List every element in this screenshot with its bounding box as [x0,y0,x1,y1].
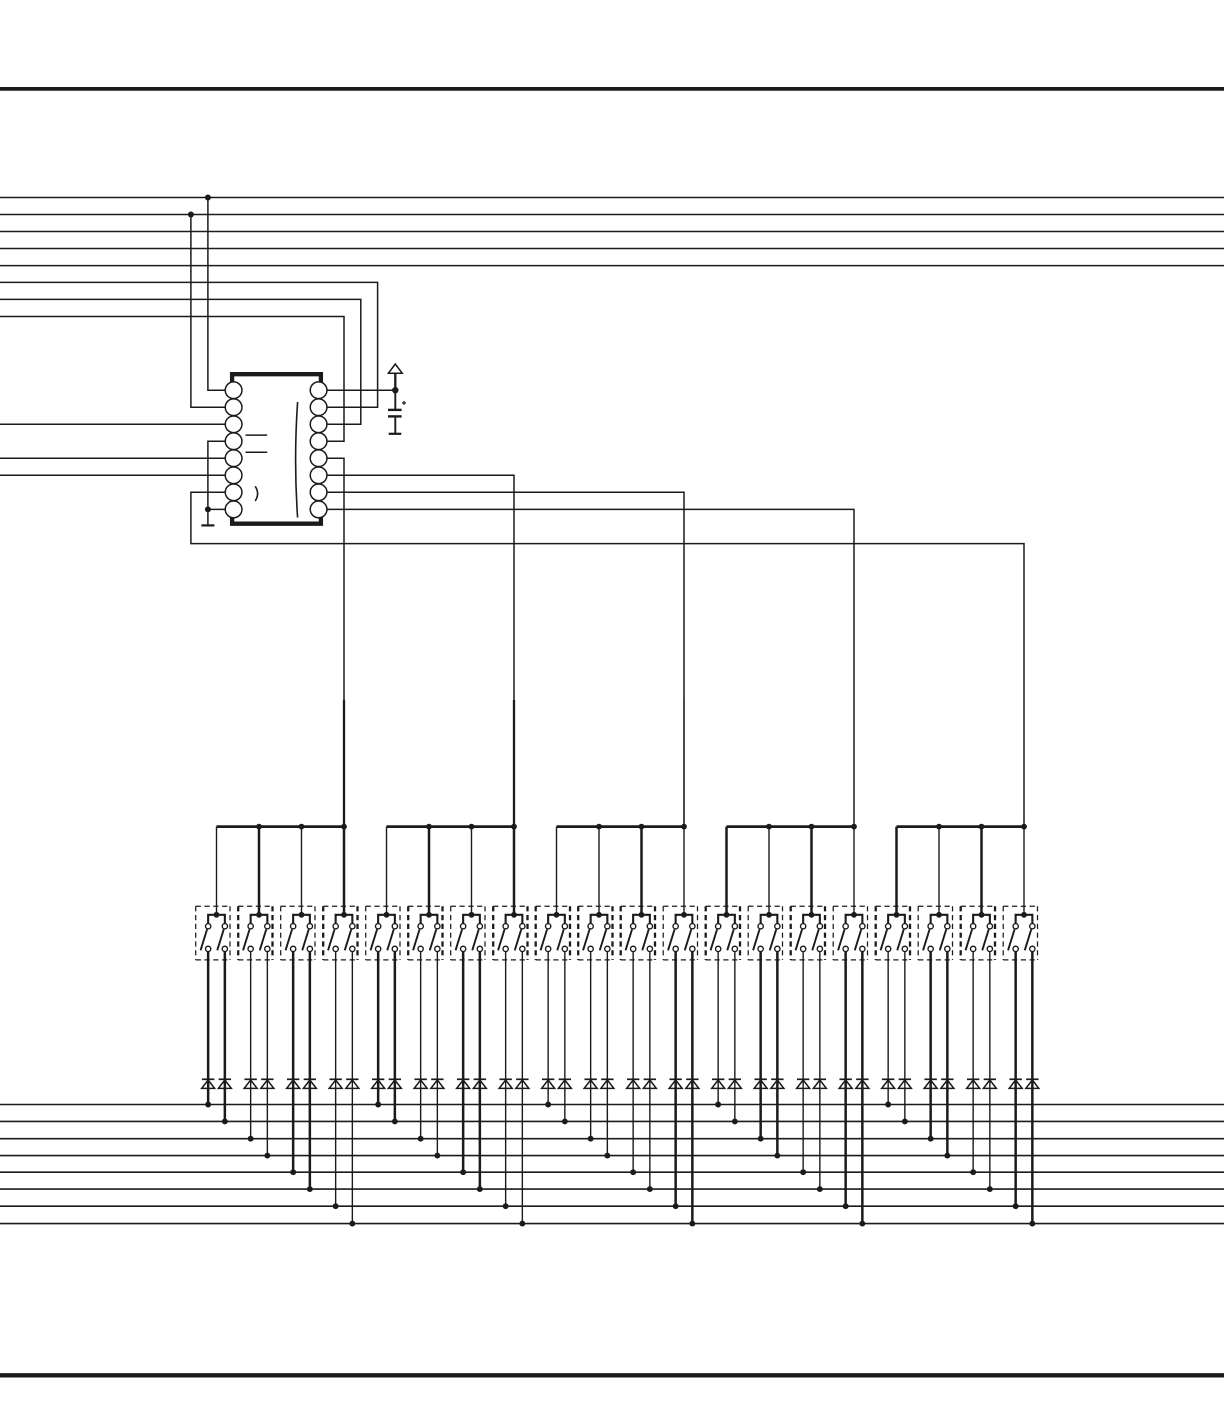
junction [732,1118,738,1124]
junction [715,1102,721,1108]
junction [647,1186,653,1192]
wire bus drop to switch S3 [301,827,303,915]
wire bus drop to switch S2 [258,827,261,915]
wire switch S18 contact 2 to matrix row 4 [946,952,949,1156]
switch S16 [833,906,867,960]
wire bus drop to switch S9 [556,827,558,915]
wire top bus line 2 [0,214,1224,216]
wire switch S20 contact 1 to matrix row 7 [1014,952,1017,1207]
switch S6 [408,906,442,960]
switch S14 [748,906,782,960]
switch S9 [536,906,570,960]
diode D13 [457,1079,470,1088]
diode D10 [388,1079,401,1088]
junction [349,1221,355,1227]
wire switch S7 contact 2 to matrix row 6 [479,952,482,1190]
diode D17 [542,1079,555,1088]
wire bottom matrix row 4 [0,1155,1224,1157]
wire key group 1 bus [217,825,345,828]
switch S11 [621,906,655,960]
diode D21 [627,1079,640,1088]
wire switch S16 contact 2 to matrix row 8 [861,952,864,1224]
junction [758,1136,764,1142]
switch S20 [1003,906,1037,960]
junction [987,1186,993,1192]
junction [979,824,985,830]
diode D16 [516,1079,529,1088]
wire switch S6 contact 1 to matrix row 3 [420,952,422,1139]
wire switch S8 contact 1 to matrix row 7 [505,952,507,1207]
diode D28 [771,1079,784,1088]
wire top bus line 3 [0,231,1224,233]
wire switch S12 contact 2 to matrix row 8 [691,952,694,1224]
diode D1 [202,1079,215,1088]
junction [519,1221,525,1227]
junction [256,824,262,830]
junction [426,824,432,830]
diode D12 [431,1079,444,1088]
switch S15 [791,906,825,960]
junction [418,1136,424,1142]
diode D31 [839,1079,852,1088]
junction pin4/pin8 ground node [205,506,211,512]
junction [604,1153,610,1159]
wire switch S7 contact 1 to matrix row 5 [462,952,465,1173]
switch S19 [961,906,995,960]
switch S2 [238,906,272,960]
wire bottom matrix row 3 [0,1138,1224,1140]
wire bus drop to switch S1 [216,827,218,915]
wire left stub to transformer pin 6 [0,474,225,476]
junction [503,1203,509,1209]
wire key group 4 bus [727,825,855,828]
wire switch S11 contact 2 to matrix row 6 [649,952,651,1190]
wire bus drop to switch S5 [386,827,388,915]
wire left stub to transformer pin 3 [0,423,225,425]
wire key group 5 bus [897,825,1025,828]
junction [1021,824,1027,830]
wire transformer secondary pin to key group 1 bus [327,458,344,700]
diode D35 [924,1079,937,1088]
diode D14 [473,1079,486,1088]
diode D5 [287,1079,300,1088]
ground [207,509,209,525]
wire bus drop to switch S8 [513,827,516,915]
diode D29 [797,1079,810,1088]
wire bus drop to switch S15 [810,827,813,915]
diode D7 [329,1079,342,1088]
junction [460,1169,466,1175]
switch S12 [663,906,697,960]
junction [333,1203,339,1209]
wire top bus line 7 to transformer pin 13 [0,299,361,424]
wire top bus line 1 to transformer pin 1 [208,198,225,391]
junction [639,824,645,830]
capacitor C1 [394,390,396,409]
diode D4 [261,1079,274,1088]
diode D24 [686,1079,699,1088]
junction [1013,1203,1019,1209]
junction [299,824,305,830]
wire bus drop to switch S18 [938,827,940,915]
wire transformer pin 4 to ground rail [208,441,225,509]
junction [885,1102,891,1108]
wire bus drop to switch S7 [471,827,473,915]
wire switch S6 contact 2 to matrix row 4 [436,952,438,1156]
wire bus drop to switch S16 [853,827,855,915]
junction [469,824,475,830]
junction [928,1136,934,1142]
junction [222,1118,228,1124]
switch S17 [876,906,910,960]
junction [673,1203,679,1209]
transformer T1 [225,374,327,524]
junction [970,1169,976,1175]
wire switch S11 contact 1 to matrix row 5 [632,952,634,1173]
junction [477,1186,483,1192]
switch S8 [493,906,527,960]
wire transformer pin 7 to key group 5 bus [191,492,1024,826]
diode D2 [218,1079,231,1088]
diode D26 [728,1079,741,1088]
junction [341,824,347,830]
switch S10 [578,906,612,960]
wire switch S2 contact 2 to matrix row 4 [266,952,268,1156]
wire switch S13 contact 2 to matrix row 2 [734,952,736,1122]
wire switch S5 contact 2 to matrix row 2 [394,952,397,1122]
diode D23 [669,1079,682,1088]
wire switch S14 contact 1 to matrix row 3 [759,952,762,1139]
wire switch S9 contact 2 to matrix row 2 [564,952,566,1122]
diode D25 [712,1079,725,1088]
junction [511,824,517,830]
wire switch S1 contact 2 to matrix row 2 [224,952,227,1122]
diode D39 [1009,1079,1022,1088]
wire switch S15 contact 1 to matrix row 5 [802,952,804,1173]
junction on top bus line 1 [205,195,211,201]
junction [766,824,772,830]
wire transformer secondary pin to key group 4 bus [327,509,854,700]
wire bus drop to switch S14 [768,827,770,915]
junction [630,1169,636,1175]
diode D33 [882,1079,895,1088]
wire bottom matrix row 6 [0,1188,1224,1190]
junction [843,1203,849,1209]
wire key group 2 bus [387,825,515,828]
wire transformer pin 11 to supply node [327,389,395,391]
junction [264,1153,270,1159]
junction [817,1186,823,1192]
junction [562,1118,568,1124]
junction [434,1153,440,1159]
wire switch S3 contact 1 to matrix row 5 [292,952,295,1173]
junction [290,1169,296,1175]
wire top bus line 2 to transformer pin 2 [191,215,225,408]
junction [936,824,942,830]
junction [248,1136,254,1142]
wire transformer pin 8 to ground rail [208,508,225,510]
wire bus drop to switch S20 [1023,827,1025,915]
junction [596,824,602,830]
wire switch S15 contact 2 to matrix row 6 [819,952,821,1190]
diode D32 [856,1079,869,1088]
wire transformer secondary pin to key group 3 bus [327,492,684,700]
junction [851,824,857,830]
wire key group 3 bus [557,825,685,828]
wire switch S20 contact 2 to matrix row 8 [1031,952,1034,1224]
diode D30 [813,1079,826,1088]
wire switch S19 contact 1 to matrix row 5 [972,952,974,1173]
wire switch S1 contact 1 to matrix row 1 [207,952,210,1105]
wire switch S14 contact 2 to matrix row 4 [776,952,779,1156]
diode D3 [244,1079,257,1088]
junction [859,1221,865,1227]
wire switch S10 contact 2 to matrix row 4 [606,952,608,1156]
wire top bus line 1 [0,197,1224,199]
switch S1 [196,906,230,960]
wire bus drop to switch S19 [980,827,983,915]
junction [205,1102,211,1108]
wire switch S9 contact 1 to matrix row 1 [547,952,549,1105]
junction [375,1102,381,1108]
diode D8 [346,1079,359,1088]
junction [1029,1221,1035,1227]
wire bus drop to switch S10 [598,827,600,915]
diode D19 [584,1079,597,1088]
diode D15 [499,1079,512,1088]
junction [800,1169,806,1175]
junction [588,1136,594,1142]
wire switch S18 contact 1 to matrix row 3 [929,952,932,1139]
wire bus drop to switch S17 [895,827,898,915]
wire top bus line 6 to transformer pin 12 [0,282,378,407]
wire top bus line 5 [0,265,1224,267]
wire bottom matrix row 1 [0,1104,1224,1106]
wire switch S3 contact 2 to matrix row 6 [309,952,312,1190]
wire switch S17 contact 1 to matrix row 1 [887,952,889,1105]
wire bottom matrix row 5 [0,1171,1224,1173]
wire bus drop to switch S4 [343,827,346,915]
junction [902,1118,908,1124]
ground [394,418,396,434]
junction [809,824,815,830]
wire switch S12 contact 1 to matrix row 7 [674,952,677,1207]
diode D27 [754,1079,767,1088]
wire switch S10 contact 1 to matrix row 3 [590,952,592,1139]
wire switch S2 contact 1 to matrix row 3 [250,952,252,1139]
junction [944,1153,950,1159]
wire bottom matrix row 8 [0,1223,1224,1225]
junction on top bus line 2 [188,212,194,218]
junction supply node [392,387,398,393]
wire switch S4 contact 1 to matrix row 7 [335,952,337,1207]
junction [681,824,687,830]
diode D20 [601,1079,614,1088]
wire bus drop to switch S12 [683,827,685,915]
wire bottom matrix row 7 [0,1205,1224,1207]
wire bus drop to switch S11 [640,827,643,915]
wire bottom matrix row 2 [0,1120,1224,1122]
junction [774,1153,780,1159]
power supply arrow [388,364,402,373]
diode D6 [303,1079,316,1088]
wire top bus line 4 [0,248,1224,250]
switch S3 [281,906,315,960]
diode D37 [967,1079,980,1088]
diode D36 [941,1079,954,1088]
switch S18 [918,906,952,960]
junction [307,1186,313,1192]
wire left stub to transformer pin 5 [0,457,225,459]
junction [689,1221,695,1227]
junction [392,1118,398,1124]
wire bus drop to switch S13 [725,827,728,915]
wire top bus line 8 to transformer pin 14 [0,317,344,442]
diode D22 [643,1079,656,1088]
junction [545,1102,551,1108]
switch S13 [706,906,740,960]
switch S5 [366,906,400,960]
diode D40 [1026,1079,1039,1088]
switch S7 [451,906,485,960]
wire switch S13 contact 1 to matrix row 1 [717,952,719,1105]
diode D9 [372,1079,385,1088]
diode D38 [983,1079,996,1088]
switch S4 [323,906,357,960]
wire transformer secondary pin to key group 2 bus [327,475,514,700]
wire bus drop to switch S6 [428,827,431,915]
wire switch S19 contact 2 to matrix row 6 [989,952,991,1190]
wire switch S17 contact 2 to matrix row 2 [904,952,906,1122]
wire switch S8 contact 2 to matrix row 8 [521,952,523,1224]
diode D34 [898,1079,911,1088]
wire switch S4 contact 2 to matrix row 8 [351,952,353,1224]
diode D18 [558,1079,571,1088]
diode D11 [414,1079,427,1088]
wire switch S5 contact 1 to matrix row 1 [377,952,380,1105]
wire switch S16 contact 1 to matrix row 7 [844,952,847,1207]
